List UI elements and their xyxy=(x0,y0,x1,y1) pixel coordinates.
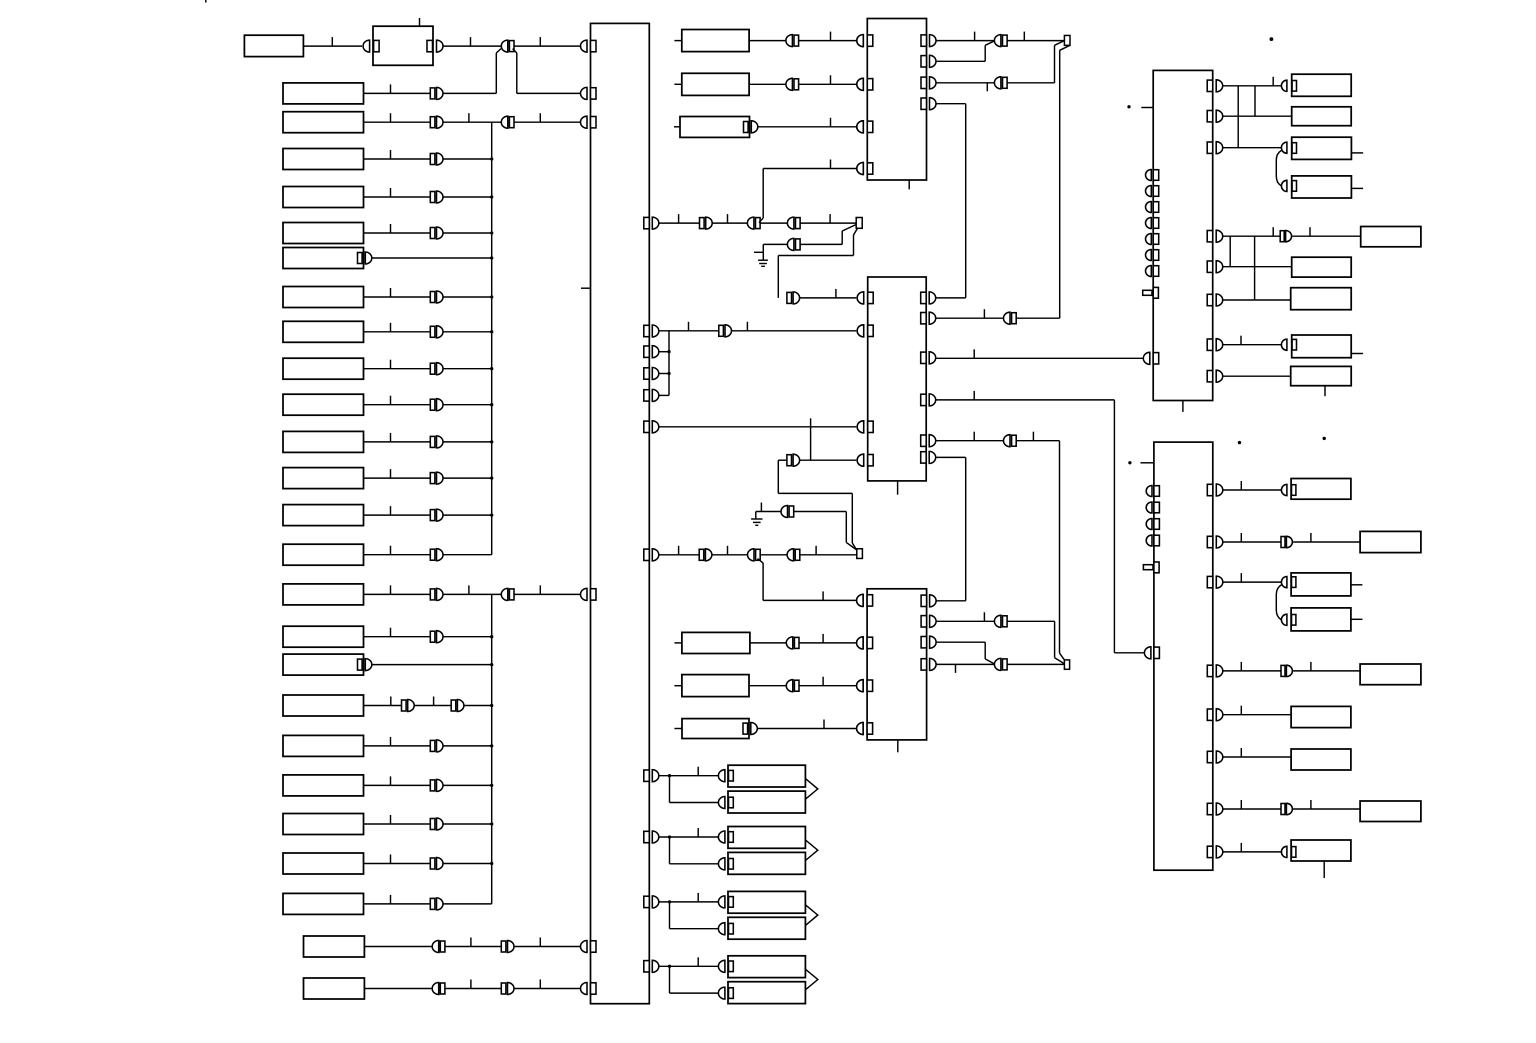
wire mA1 xyxy=(659,222,700,224)
junction group2 xyxy=(668,835,671,838)
wire U2 out1 xyxy=(936,40,995,42)
connector mAx xyxy=(786,35,793,47)
connector group1a xyxy=(718,770,724,782)
wire mBy xyxy=(799,83,857,85)
flag box group1 upper xyxy=(728,765,805,787)
connector m440 xyxy=(1004,435,1010,447)
connector m553a xyxy=(748,549,754,561)
connector group1b xyxy=(718,797,724,809)
connector m621 xyxy=(994,615,1001,627)
buffer r8 xyxy=(430,292,435,303)
branch u5 d xyxy=(1254,236,1256,300)
buffer r5 xyxy=(430,192,435,203)
chevron group3 xyxy=(805,905,817,926)
junction r5 xyxy=(490,195,493,198)
wire u5 out7 xyxy=(1223,344,1282,346)
wire u6 out7 xyxy=(1223,808,1281,810)
wire mC riser xyxy=(853,235,855,256)
wire u5 out8 xyxy=(1223,375,1291,377)
wire r25b xyxy=(445,946,501,948)
connector mT2a xyxy=(994,35,1001,47)
input box r7 with attached buffer xyxy=(283,248,364,269)
wire m331b xyxy=(732,330,857,332)
connector r26a xyxy=(432,983,439,995)
wire mB1 xyxy=(763,243,787,245)
wire U4 out2 xyxy=(936,620,995,622)
pin U1 out y331 xyxy=(644,325,650,336)
box sI xyxy=(1291,840,1351,861)
wire U3 out5 xyxy=(936,440,1004,442)
junction r9 xyxy=(490,330,493,333)
stub rC xyxy=(1352,152,1363,154)
wire r4 to bus xyxy=(443,158,492,160)
input box mA xyxy=(682,30,749,52)
pin U3 out1 xyxy=(921,292,927,303)
wire group1 upper xyxy=(659,775,719,777)
input box r9 xyxy=(283,321,364,342)
wire r2 xyxy=(364,92,431,94)
terminal T1 xyxy=(856,218,862,229)
wire r12 xyxy=(364,441,431,443)
input box mB xyxy=(682,73,749,95)
junction r20 xyxy=(490,744,493,747)
wire U2 out3 xyxy=(936,82,995,84)
pin U2 out2 xyxy=(921,56,927,67)
wire s670b xyxy=(1293,670,1360,672)
connector group2a xyxy=(718,831,724,843)
connector mBx xyxy=(786,78,793,90)
wire r13 xyxy=(364,477,431,479)
box rG xyxy=(1291,288,1352,310)
wire mDb xyxy=(799,642,856,644)
pin U5 in y175 xyxy=(1146,170,1152,181)
wire m440b xyxy=(1016,440,1059,442)
stub mA xyxy=(674,40,681,42)
pin U6 out y490 xyxy=(1207,484,1213,495)
pin U4 out4 xyxy=(921,659,927,670)
wire r3c to U1 xyxy=(514,121,583,123)
wire r1c to U1 xyxy=(514,45,583,47)
pin U2 in4 xyxy=(857,163,864,175)
junction r6 xyxy=(490,231,493,234)
stub mD xyxy=(674,642,682,644)
wire U4 out4 xyxy=(936,663,995,665)
junction r14 xyxy=(490,513,493,516)
wire r8 xyxy=(364,296,431,298)
wire r4 xyxy=(364,158,431,160)
junction r22 xyxy=(490,822,493,825)
pin U3 out2 xyxy=(921,313,927,324)
pin U6 in y507 xyxy=(1146,502,1152,513)
terminal T2 xyxy=(1064,35,1070,45)
wire U2out4 to U3out1 xyxy=(965,104,967,298)
stub rI bottom xyxy=(1324,386,1326,397)
wire mEb xyxy=(799,685,856,687)
wire u6 out8 xyxy=(1223,851,1282,853)
input box r23 xyxy=(283,853,364,874)
wire r6 xyxy=(364,232,431,234)
connector group3a xyxy=(718,896,724,908)
input box r15 xyxy=(283,544,364,565)
wire mAy xyxy=(799,40,857,42)
wire u5 out6 xyxy=(1223,299,1291,301)
buffer r16 xyxy=(430,589,435,600)
dot U6 left xyxy=(1128,461,1131,464)
pin U2 in2 xyxy=(857,78,864,90)
buffer mC in xyxy=(787,292,792,303)
junction group4 xyxy=(668,965,671,968)
buffer r24 xyxy=(430,898,435,909)
wire r20 xyxy=(364,745,431,747)
wire U3 out4 to U6 xyxy=(936,399,1115,401)
input box r22 xyxy=(283,814,364,835)
wire mE xyxy=(749,685,787,687)
pin U1 out y223 xyxy=(644,217,650,228)
junction r19 xyxy=(490,704,493,707)
wire group4 lower xyxy=(669,966,671,993)
wire branch u1 outs xyxy=(668,331,670,396)
wire r22 xyxy=(364,823,431,825)
pin U4 in2 xyxy=(857,637,863,649)
wire r24 xyxy=(364,903,431,905)
wire group1 lower xyxy=(669,776,671,803)
pin U4 out2 xyxy=(921,616,927,627)
connector S1 xyxy=(501,40,508,52)
box rI xyxy=(1291,366,1352,385)
pin U1 out y554 xyxy=(644,549,650,560)
connector m511 xyxy=(781,506,787,518)
connector rC xyxy=(1281,142,1287,153)
wire mB riser xyxy=(841,231,843,244)
wire r6 to bus xyxy=(443,232,492,234)
wire r24 to bus xyxy=(443,903,492,905)
wire r14 xyxy=(364,514,431,516)
stub U3 bottom xyxy=(897,481,899,495)
connector mA2 xyxy=(787,217,793,229)
pin U4 in4 xyxy=(857,723,863,735)
pin U6 out y542 xyxy=(1207,536,1213,547)
connector r3 xyxy=(501,116,508,128)
stray dot a xyxy=(1238,441,1241,444)
stub mE xyxy=(674,685,682,687)
wire group3 upper xyxy=(659,901,719,903)
pin U1 out y395 xyxy=(644,390,650,401)
stub U2 bottom xyxy=(908,180,910,189)
wire mD xyxy=(750,642,787,644)
flag box group2 lower xyxy=(728,852,805,874)
chevron group4 xyxy=(805,969,817,990)
pin U6 out y809 xyxy=(1207,803,1213,814)
junction r18 xyxy=(490,663,493,666)
wire mCy xyxy=(758,126,857,128)
pin U1 out y837 xyxy=(644,831,650,842)
buffer r10 xyxy=(430,363,435,374)
wire r1a xyxy=(303,45,362,47)
wire mA box xyxy=(749,40,786,42)
wire r16 xyxy=(364,593,431,595)
stub U6 left xyxy=(1141,462,1154,464)
wire r26b xyxy=(445,988,501,990)
box rH xyxy=(1292,335,1352,358)
wire U1out331 to U3 xyxy=(659,330,719,332)
pin U1 in r2 xyxy=(581,87,588,99)
pin U1 in r1 xyxy=(581,40,588,52)
wire group2 lower xyxy=(669,837,671,864)
connector group4a xyxy=(718,960,724,972)
stub mB xyxy=(674,83,681,85)
input box r19 xyxy=(283,695,364,716)
wire r9 xyxy=(364,331,431,333)
chevron group1 xyxy=(805,779,817,800)
wire u5 out4 xyxy=(1223,235,1280,237)
wire m460c xyxy=(800,459,857,461)
wire U3 in1 xyxy=(800,297,857,299)
pin U2 out3 xyxy=(921,77,927,88)
wire r19b xyxy=(414,705,451,707)
wire u6 out5 xyxy=(1223,714,1291,716)
wire r11 to bus xyxy=(443,404,492,406)
input box r26 xyxy=(304,978,365,999)
wire m621b xyxy=(1007,620,1055,622)
wire m553 drop xyxy=(758,559,764,563)
wire mC1 xyxy=(778,255,853,257)
wire u1 out395 xyxy=(659,394,669,396)
pin U1 out y351 xyxy=(644,346,650,357)
chevron group2 xyxy=(805,840,817,861)
connector r16 xyxy=(501,588,508,600)
curved branch sCD xyxy=(1276,585,1281,620)
wire r26c to U1 xyxy=(514,988,583,990)
flag box group4 upper xyxy=(728,956,805,978)
wire U2 out4 xyxy=(936,103,966,105)
wire r236b xyxy=(1292,235,1360,237)
junction r23 xyxy=(490,862,493,865)
wire r5 xyxy=(364,196,431,198)
wire U3 out3 to U5 xyxy=(936,357,1143,359)
connector mE xyxy=(786,680,793,692)
ground G2 xyxy=(755,512,757,520)
input box r3 xyxy=(283,112,364,133)
pin U1 out y901 xyxy=(644,896,650,907)
pin U3 in3 xyxy=(857,421,864,433)
pin U5 in y223 xyxy=(1146,218,1152,229)
block U1 xyxy=(591,23,650,1003)
input box r5 xyxy=(283,187,364,208)
wire mT2a xyxy=(1007,40,1064,42)
pin U5 in358 xyxy=(1143,352,1150,364)
pin U6 in y524 xyxy=(1146,519,1152,530)
wire m460b xyxy=(778,459,787,461)
junction r10 xyxy=(490,367,493,370)
input box r2 xyxy=(283,83,364,104)
wire r2 drop left xyxy=(496,49,501,53)
wire u6 out1 xyxy=(1223,489,1282,491)
pin U5 out y116 xyxy=(1207,111,1213,122)
wire u5 out1 xyxy=(1223,85,1282,87)
connector sD xyxy=(1281,614,1287,625)
wire m664b xyxy=(1007,663,1064,665)
block U3 xyxy=(868,277,927,481)
box sA xyxy=(1291,479,1351,500)
pin U6 out y851 xyxy=(1207,846,1213,857)
pin U1 in r16 xyxy=(581,588,588,600)
wire r7 to bus xyxy=(372,257,492,259)
junction r12 xyxy=(490,440,493,443)
wire mc460 xyxy=(777,460,779,493)
buffer r11 xyxy=(430,399,435,410)
input box r21 xyxy=(283,775,364,796)
block U6 xyxy=(1154,442,1213,870)
stub rH xyxy=(1352,353,1363,355)
junction m373 xyxy=(667,372,670,375)
wire T2 drop xyxy=(1060,45,1070,50)
stray dot b xyxy=(1323,437,1326,440)
pin U5 out y147 xyxy=(1207,142,1213,153)
wire U2 in4 xyxy=(763,168,856,170)
box rF xyxy=(1292,257,1352,277)
connector mA1 xyxy=(747,217,753,229)
wire r20 to bus xyxy=(443,745,492,747)
pin U6 in653 xyxy=(1144,647,1150,659)
wire u6 out4 xyxy=(1223,670,1281,672)
pin U5 in y255 xyxy=(1146,250,1152,261)
stub sC xyxy=(1351,584,1363,586)
pin U1 out y373 xyxy=(644,368,650,379)
input box r1 xyxy=(244,35,303,56)
wire mT2b xyxy=(1007,82,1054,84)
input box r17 xyxy=(283,626,364,647)
wire m553b xyxy=(712,554,748,556)
buffer r6 xyxy=(430,228,435,239)
dot U5 left xyxy=(1127,105,1130,108)
buffer s542 xyxy=(1281,537,1285,548)
pin U6 special xyxy=(1143,565,1153,570)
pin U2 in3 xyxy=(857,121,864,133)
pin U3 in4 xyxy=(857,454,864,466)
box rA xyxy=(1292,74,1352,96)
connector group2b xyxy=(718,858,724,870)
pin U5 in y191 xyxy=(1146,186,1152,197)
junction r8 xyxy=(490,295,493,298)
buffer r13 xyxy=(430,473,435,484)
buffer mA xyxy=(700,218,705,229)
pin U5 in y239 xyxy=(1146,234,1152,245)
wire r19c to bus xyxy=(464,705,492,707)
pin U3 out6 xyxy=(921,452,927,463)
connector mT2b xyxy=(994,77,1001,89)
connector rD xyxy=(1281,180,1287,191)
junction r7 xyxy=(490,256,493,259)
wire r12 to bus xyxy=(443,441,492,443)
wire r2b xyxy=(443,92,496,94)
pin U4 out1 xyxy=(921,595,927,606)
buffer block B1 xyxy=(363,40,369,52)
junction r4 xyxy=(490,157,493,160)
input box mC with attached buffer xyxy=(680,117,750,138)
pin U1 in r25 xyxy=(581,941,588,953)
junction r21 xyxy=(490,784,493,787)
junction group1 xyxy=(668,774,671,777)
buffer r14 xyxy=(430,510,435,521)
pin U1 out y426 xyxy=(644,421,650,432)
wire s542b xyxy=(1293,541,1360,543)
connector mD xyxy=(786,637,793,649)
wire u5 out5 xyxy=(1223,266,1292,268)
wire r10 to bus xyxy=(443,368,492,370)
wire r8 to bus xyxy=(443,296,492,298)
wire mA3 xyxy=(760,222,788,224)
pin U6 out y714 xyxy=(1207,709,1213,720)
pin U3 out3 xyxy=(921,352,927,363)
pin U5 out y300 xyxy=(1207,294,1213,305)
pin U5 out y85 xyxy=(1207,80,1213,91)
wire r2 drop right xyxy=(513,49,517,53)
pin U6 out y670 xyxy=(1207,665,1213,676)
input box r8 xyxy=(283,287,364,308)
wire U1out427 to U3 xyxy=(659,426,857,428)
wire r23 to bus xyxy=(443,863,492,865)
junction group3 xyxy=(668,900,671,903)
wire tap m427 xyxy=(810,418,812,460)
box sB xyxy=(1360,531,1421,552)
pin U4 in1 xyxy=(857,594,863,606)
stub U4 bottom xyxy=(897,740,899,752)
branch u5 b xyxy=(1254,86,1256,116)
wire u5 out3 xyxy=(1223,147,1282,149)
wire r19 xyxy=(364,705,402,707)
buffer r12 xyxy=(430,436,435,447)
stray dot c xyxy=(1270,37,1274,41)
wire r14 to bus xyxy=(443,514,492,516)
flag box group2 upper xyxy=(728,827,805,849)
input box r13 xyxy=(283,468,364,489)
wire r5 to bus xyxy=(443,196,492,198)
connector m318 xyxy=(1004,312,1010,324)
wire U4 in1 xyxy=(763,599,856,601)
wire mA2 xyxy=(712,222,747,224)
wire r1b xyxy=(443,45,502,47)
connector sC xyxy=(1281,577,1287,588)
pin U4 in3 xyxy=(857,680,863,692)
stub U1 left xyxy=(581,287,591,289)
wire r23 xyxy=(364,863,431,865)
buffer m460 xyxy=(787,455,792,466)
pin U4 out3 xyxy=(921,637,927,648)
input box r12 xyxy=(283,431,364,452)
pin U1 out y966 xyxy=(644,961,650,972)
wire r15 to bus xyxy=(443,554,492,556)
wire r22 to bus xyxy=(443,823,492,825)
buffer r25 xyxy=(501,941,506,952)
wire U2 out2 xyxy=(936,60,985,62)
input box r25 xyxy=(304,936,365,957)
wire r21 xyxy=(364,784,431,786)
wire group4 upper xyxy=(659,965,719,967)
wire group3 lower xyxy=(669,902,671,929)
wire mA4 xyxy=(800,222,856,224)
wire m553d xyxy=(800,554,857,556)
buffer m553 xyxy=(699,549,704,560)
wire r16b xyxy=(443,593,502,595)
wire r21 to bus xyxy=(443,784,492,786)
wire m553 xyxy=(659,554,699,556)
stub mF xyxy=(674,728,682,730)
wire r18 to bus xyxy=(372,664,492,666)
buffer r15 xyxy=(430,549,435,560)
wire U3 out1 xyxy=(936,297,966,299)
stub rD xyxy=(1352,187,1363,189)
input box r20 xyxy=(283,735,364,756)
